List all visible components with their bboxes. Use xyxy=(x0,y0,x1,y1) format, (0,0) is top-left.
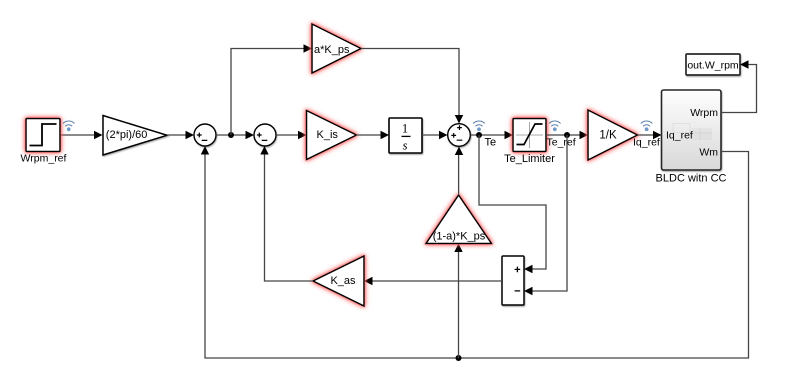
sum S1 xyxy=(194,124,216,146)
logging badge at step output xyxy=(63,121,75,131)
wire: junction up to a*K_ps input xyxy=(231,49,305,136)
arrowhead into K_as xyxy=(364,277,373,285)
sum S3 xyxy=(448,124,471,147)
wire: Te junction down and across to sum rect plus input xyxy=(479,135,546,269)
svg-text:s: s xyxy=(403,139,408,153)
arrowhead into S3 left xyxy=(439,131,448,139)
wire: Wm output to bottom feedback bus xyxy=(205,152,749,359)
arrowhead into sum S1 xyxy=(186,131,195,139)
gain K_as xyxy=(313,256,364,306)
svg-text:(1-a)*K_ps: (1-a)*K_ps xyxy=(433,231,486,243)
label Iq_ref xyxy=(633,137,660,149)
svg-text:Te: Te xyxy=(485,136,497,148)
arrowhead into S2 bottom xyxy=(260,146,268,155)
logging badge Te_ref xyxy=(549,121,561,131)
arrowhead into out.W_rpm xyxy=(740,60,749,68)
wire: S3 to Te_Limiter with junction Te xyxy=(471,134,506,136)
svg-text:Te_ref: Te_ref xyxy=(547,137,576,149)
arrowhead into (1-a)*K_ps xyxy=(454,244,462,253)
svg-text:1/K: 1/K xyxy=(599,130,617,142)
wire: feedback bus up to (1-a)*K_ps input xyxy=(458,250,460,358)
label Te_Limiter xyxy=(504,153,555,165)
svg-text:1: 1 xyxy=(402,121,408,135)
svg-text:BLDC witn CC: BLDC witn CC xyxy=(656,173,727,185)
wire: K_is to integrator xyxy=(356,134,382,136)
junction node after S1 xyxy=(228,132,234,138)
arrowhead into gain (2*pi)/60 xyxy=(94,131,103,139)
gain 1/K xyxy=(588,110,638,160)
gain a*K_ps xyxy=(312,24,361,73)
arrowhead into sum S2 xyxy=(246,131,255,139)
wire: Wrpm output to out.W_rpm xyxy=(721,65,757,113)
wire: Te_ref junction down to sum rect minus input xyxy=(531,135,567,291)
svg-text:K_is: K_is xyxy=(317,129,339,141)
wire: step output to gain input xyxy=(60,134,95,136)
arrowhead into integrator xyxy=(381,131,390,139)
junction node Te_ref xyxy=(564,132,570,138)
wire: Te_Limiter to 1/K with junction Te_ref xyxy=(546,134,581,136)
wire: 1/K to BLDC input xyxy=(638,134,655,136)
arrowhead into Te_Limiter xyxy=(505,131,514,139)
svg-text:Te_Limiter: Te_Limiter xyxy=(504,153,555,165)
sum rect (Te - Te_ref) xyxy=(502,256,524,305)
gain (1-a)*K_ps xyxy=(426,195,492,244)
label Wrpm_ref xyxy=(21,153,67,165)
arrowhead into S3 top xyxy=(455,115,463,124)
arrowhead into BLDC Iq_ref port xyxy=(653,131,662,139)
wire: sum S1 to sum S2 with junction xyxy=(216,134,247,136)
svg-text:Iq_ref: Iq_ref xyxy=(633,137,660,149)
wire: sum rect output to K_as input xyxy=(371,280,502,282)
svg-text:(2*pi)/60: (2*pi)/60 xyxy=(106,129,148,141)
arrowhead into a*K_ps xyxy=(304,44,313,52)
svg-text:Iq_ref: Iq_ref xyxy=(666,130,693,142)
arrowhead into 1/K xyxy=(580,131,589,139)
arrowhead into sum rect plus xyxy=(524,265,533,273)
label Te_ref xyxy=(547,137,576,149)
wire: K_as output to sum S2 bottom xyxy=(265,153,314,281)
arrowhead into sum S1 bottom xyxy=(201,146,209,155)
svg-text:Wm: Wm xyxy=(699,147,718,159)
svg-text:K_as: K_as xyxy=(330,275,356,287)
to-workspace block out.W_rpm xyxy=(686,54,740,75)
subsystem BLDC witn CC xyxy=(662,90,722,170)
junction node on feedback bus xyxy=(456,355,462,361)
logging badge Iq_ref xyxy=(641,121,653,131)
label Te xyxy=(485,136,497,148)
svg-text:Wrpm_ref: Wrpm_ref xyxy=(21,153,67,165)
gain K_is xyxy=(307,111,357,160)
svg-text:a*K_ps: a*K_ps xyxy=(314,44,350,56)
junction node Te xyxy=(476,132,482,138)
wire: integrator to sum S3 xyxy=(422,134,440,136)
sum S2 xyxy=(254,124,276,146)
saturation block Te_Limiter xyxy=(513,119,546,152)
label BLDC witn CC xyxy=(656,173,727,185)
arrowhead into S3 bottom xyxy=(455,147,463,156)
svg-text:Wrpm: Wrpm xyxy=(690,107,718,119)
svg-text:out.W_rpm: out.W_rpm xyxy=(687,60,739,72)
step source Wrpm_ref xyxy=(26,119,60,152)
logging badge Te xyxy=(473,121,485,131)
wire: (1-a)*K_ps output to sum S3 bottom xyxy=(458,153,460,195)
wire: a*K_ps output to sum S3 top xyxy=(361,49,459,117)
wire: sum S2 to K_is xyxy=(276,134,298,136)
integrator 1/s xyxy=(389,118,422,153)
wire: gain to sum S1 xyxy=(167,134,187,136)
arrowhead into K_is xyxy=(298,131,307,139)
gain (2*pi)/60 xyxy=(103,116,167,156)
arrowhead into sum rect minus xyxy=(524,287,533,295)
